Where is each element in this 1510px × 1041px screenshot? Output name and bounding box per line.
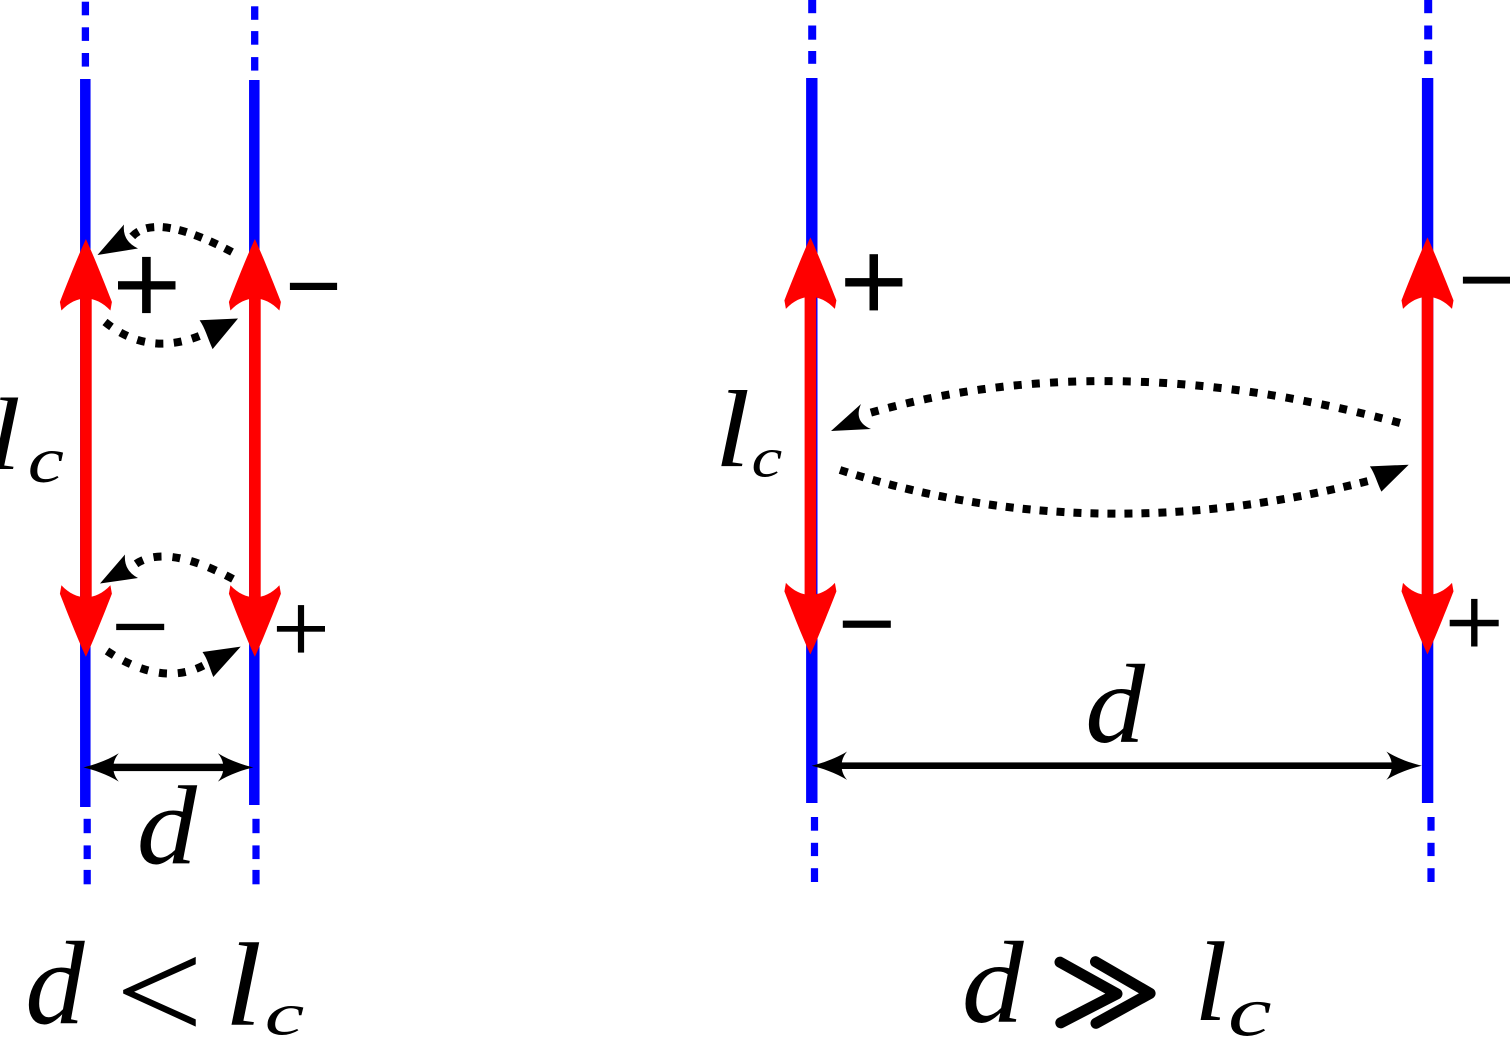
distance arrow d left panel — [83, 753, 253, 781]
red segment arrow wire 2 — [229, 239, 281, 657]
arrowhead dotted right upper — [831, 404, 871, 431]
plus sign bottom wire 2 — [277, 605, 325, 653]
red segment arrow wire 3 — [784, 237, 836, 654]
wire 1 top dashed — [82, 2, 89, 67]
svg-text:d: d — [137, 764, 198, 889]
minus sign top wire 4 — [1463, 277, 1510, 284]
svg-text:c: c — [265, 981, 305, 1041]
wire 1 solid — [80, 79, 91, 807]
label l_c right panel — [714, 368, 782, 490]
arrowhead dotted top-left lower — [200, 319, 238, 350]
caption d < l_c — [25, 911, 304, 1041]
svg-text:l: l — [714, 368, 750, 490]
dotted exchange arc right upper — [866, 381, 1400, 423]
svg-text:d: d — [1085, 644, 1146, 768]
label l_c left panel — [0, 378, 64, 496]
svg-text:l: l — [0, 378, 21, 491]
wire 2 top dashed — [251, 6, 258, 70]
arrowhead dotted bottom-left lower — [203, 647, 241, 677]
svg-text:c: c — [752, 427, 783, 489]
wire 4 bottom dashed — [1427, 817, 1434, 882]
wire 3 solid — [806, 78, 817, 803]
wire 2 bottom dashed — [252, 819, 259, 885]
svg-text:d: d — [962, 919, 1025, 1041]
svg-text:c: c — [1228, 973, 1272, 1041]
dotted exchange arc bottom-left upper — [132, 556, 233, 579]
arrowhead dotted right lower — [1370, 465, 1409, 492]
svg-text:l: l — [224, 919, 262, 1041]
minus sign bottom wire 1 — [116, 624, 164, 630]
red segment arrow wire 1 — [60, 239, 112, 657]
wire 3 top dashed — [808, 0, 816, 64]
arrowhead dotted top-left upper — [98, 225, 139, 256]
wire 1 bottom dashed — [84, 819, 91, 885]
dotted exchange arc top-left lower — [105, 322, 204, 344]
wire 2 solid — [249, 80, 259, 805]
caption d >> l_c — [962, 919, 1272, 1041]
plus sign top wire 3 — [845, 254, 902, 310]
svg-text:c: c — [28, 424, 64, 497]
dotted exchange arc right lower — [840, 470, 1372, 514]
minus sign top wire 2 — [290, 283, 337, 290]
plus sign top wire 1 — [118, 257, 176, 313]
svg-text:<: < — [106, 911, 211, 1041]
svg-text:l: l — [1194, 919, 1227, 1041]
red segment arrow wire 4 — [1402, 237, 1454, 654]
minus sign bottom wire 3 — [843, 621, 891, 628]
wire 3 bottom dashed — [811, 817, 818, 882]
distance arrow d right panel — [812, 752, 1422, 780]
arrowhead dotted bottom-left upper — [100, 555, 138, 584]
dotted exchange arc top-left upper — [131, 227, 232, 252]
dotted exchange arc bottom-left lower — [107, 651, 208, 674]
svg-text:d: d — [25, 918, 85, 1041]
wire 4 solid — [1422, 78, 1433, 803]
wire 4 top dashed — [1424, 0, 1432, 64]
plus sign bottom wire 4 — [1450, 599, 1499, 647]
